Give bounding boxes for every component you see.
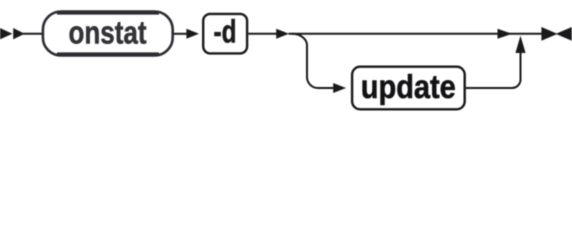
keyword box update bbox=[352, 67, 465, 110]
arrow up rejoining main bbox=[515, 36, 525, 53]
arrow before update bbox=[333, 83, 346, 93]
main wire to end bbox=[289, 33, 543, 35]
svg-text:-d: -d bbox=[214, 14, 237, 50]
wire update back up to main bbox=[466, 50, 521, 88]
pill thick bottom edge bbox=[57, 52, 159, 54]
start symbol >> bbox=[0, 28, 25, 39]
wire from start to onstat bbox=[23, 33, 44, 35]
svg-text:update: update bbox=[361, 68, 456, 105]
svg-text:onstat: onstat bbox=[69, 15, 147, 51]
arrow before -d bbox=[186, 29, 199, 39]
branch wire down to update row bbox=[292, 34, 335, 88]
wire -d to branch arrow bbox=[248, 33, 278, 35]
arrow on main wire before junction bbox=[498, 29, 513, 39]
keyword pill onstat bbox=[43, 12, 173, 56]
wire onstat to -d bbox=[174, 33, 188, 35]
pill thick top edge bbox=[57, 12, 159, 14]
arrow after -d bbox=[276, 29, 289, 39]
keyword box -d bbox=[203, 14, 247, 54]
end symbol >< bbox=[541, 27, 571, 41]
